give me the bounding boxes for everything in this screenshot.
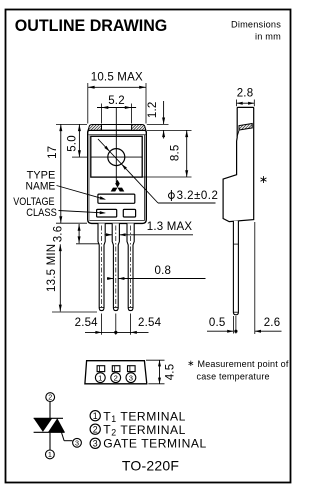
svg-text:0.5: 0.5 <box>209 317 226 329</box>
svg-text:10.5 MAX: 10.5 MAX <box>91 71 143 83</box>
svg-text:Dimensions: Dimensions <box>231 20 281 30</box>
tab hatched cap left <box>88 125 101 131</box>
lead 1 (front) <box>98 223 105 310</box>
legend item 1 <box>90 411 100 421</box>
svg-text:3.6: 3.6 <box>53 226 65 243</box>
voltage class marking box left <box>97 209 117 217</box>
svg-text:1.2: 1.2 <box>147 102 159 119</box>
svg-text:∗: ∗ <box>187 358 194 368</box>
legend item 2 <box>90 424 100 434</box>
hole diameter leader <box>98 139 158 203</box>
triac left triangle <box>34 418 53 432</box>
svg-text:∗: ∗ <box>259 174 268 186</box>
tab hatched cap right <box>132 125 146 131</box>
wire T2 to triac <box>49 402 51 419</box>
svg-text:in mm: in mm <box>255 32 281 42</box>
svg-text:5.2: 5.2 <box>108 95 125 107</box>
svg-text:1: 1 <box>98 373 102 382</box>
svg-text:3: 3 <box>93 439 98 449</box>
body inner rim lines <box>89 134 146 136</box>
svg-text:TO-220F: TO-220F <box>122 458 179 474</box>
svg-text:1.3 MAX: 1.3 MAX <box>147 221 193 233</box>
gate wire <box>61 429 65 440</box>
2.54 dimension line <box>85 331 149 333</box>
Mitsubishi logo <box>115 180 120 188</box>
svg-text:OUTLINE DRAWING: OUTLINE DRAWING <box>15 17 168 35</box>
pin section 3 <box>128 366 136 372</box>
hole horizontal centerline <box>91 156 142 158</box>
terminal 1 node <box>46 450 55 459</box>
triac top bar <box>34 417 63 419</box>
svg-text:17: 17 <box>47 146 59 159</box>
svg-text:3.2±0.2: 3.2±0.2 <box>177 190 219 202</box>
lead 2 (front) <box>112 223 119 310</box>
pin section 2 <box>112 366 120 372</box>
svg-text:Measurement point of: Measurement point of <box>198 359 289 369</box>
svg-text:4.5: 4.5 <box>165 364 177 381</box>
svg-text:0.8: 0.8 <box>155 265 172 277</box>
svg-text:5.0: 5.0 <box>66 135 78 152</box>
leader to voltage class box <box>59 211 105 213</box>
svg-text:2: 2 <box>114 373 118 382</box>
svg-text:NAME: NAME <box>26 181 56 193</box>
legend item 3 <box>90 438 100 448</box>
extension line body plane <box>254 222 256 334</box>
pin number 2 (bottom view) <box>111 373 121 383</box>
mounting hole <box>108 149 125 166</box>
side view lead <box>233 221 238 315</box>
svg-text:CLASS: CLASS <box>26 207 57 219</box>
lead 3 (front) <box>127 223 134 310</box>
pin number 1 (bottom view) <box>95 373 105 383</box>
wire triac to T1 <box>49 432 51 450</box>
svg-text:8.5: 8.5 <box>170 145 182 162</box>
vertical centerline <box>115 108 117 183</box>
side view hatched tab edge <box>239 124 252 131</box>
gate terminal node <box>73 438 82 447</box>
dimension label phi 3.2 <box>169 193 175 199</box>
pin section 1 <box>97 366 105 372</box>
package body (front view) <box>88 130 147 223</box>
svg-text:2.54: 2.54 <box>75 317 99 329</box>
svg-text:13.5 MIN: 13.5 MIN <box>46 244 58 292</box>
terminal 2 node <box>46 393 55 402</box>
svg-text:3: 3 <box>75 438 79 447</box>
leader to type name box <box>57 186 105 200</box>
triac right triangle <box>48 418 65 432</box>
voltage class marking box right <box>123 209 135 217</box>
type name marking box <box>98 194 135 203</box>
svg-text:GATE TERMINAL: GATE TERMINAL <box>103 437 206 451</box>
bottom view outline <box>85 361 147 384</box>
svg-text:2: 2 <box>93 424 98 434</box>
svg-text:case temperature: case temperature <box>197 372 270 382</box>
svg-text:3: 3 <box>129 373 133 382</box>
pin number 3 (bottom view) <box>126 373 136 383</box>
mounting tab top strip <box>102 124 132 126</box>
tab window rect <box>91 136 142 177</box>
svg-text:2: 2 <box>48 393 52 402</box>
svg-text:1: 1 <box>93 411 98 421</box>
svg-text:2.8: 2.8 <box>237 88 254 100</box>
triac bottom bar <box>34 431 65 433</box>
side view body profile <box>223 107 254 221</box>
svg-text:2.6: 2.6 <box>264 317 281 329</box>
svg-text:1: 1 <box>48 450 52 459</box>
svg-text:2.54: 2.54 <box>138 317 162 329</box>
